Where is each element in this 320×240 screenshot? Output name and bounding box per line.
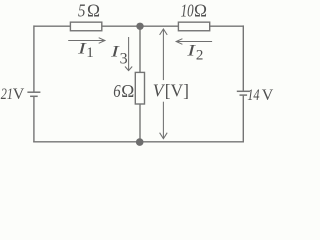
svg-text:6: 6 xyxy=(113,81,120,101)
svg-text:I: I xyxy=(110,44,120,61)
wire middle branch upper xyxy=(139,26,141,72)
svg-text:I: I xyxy=(186,43,196,60)
voltage arrow V bottom head xyxy=(160,133,168,139)
current arrow I1 head xyxy=(99,38,105,44)
svg-text:3: 3 xyxy=(120,50,128,67)
battery B2 short plate (14V) xyxy=(240,94,248,96)
battery B2 long plate (14V) xyxy=(237,90,250,92)
current arrow I1 shaft xyxy=(68,40,104,42)
voltage arrow V upper shaft xyxy=(162,29,164,80)
svg-text:V: V xyxy=(262,87,274,104)
svg-text:Ω: Ω xyxy=(121,81,134,101)
wire top-left segment xyxy=(34,25,71,27)
svg-text:V: V xyxy=(13,86,25,103)
junction node top xyxy=(136,23,143,30)
battery B1 long plate (21V) xyxy=(27,91,40,93)
svg-text:1: 1 xyxy=(86,45,94,61)
wire right side lower xyxy=(242,96,244,143)
resistor R2 box (10 ohm) xyxy=(178,22,209,31)
resistor R1 box (5 ohm) xyxy=(70,22,101,31)
svg-text:Ω: Ω xyxy=(194,1,207,21)
current arrow I2 head xyxy=(176,39,182,45)
wire left side upper xyxy=(33,25,35,91)
svg-text:[V]: [V] xyxy=(165,81,189,101)
svg-text:5: 5 xyxy=(78,1,85,21)
battery B1 short plate (21V) xyxy=(30,95,38,97)
voltage arrow V top head xyxy=(160,29,168,35)
junction node bottom xyxy=(136,138,144,146)
current arrow I3 head xyxy=(125,67,132,71)
svg-text:2: 2 xyxy=(196,48,204,64)
wire right side upper xyxy=(242,25,244,90)
voltage arrow V lower shaft xyxy=(162,102,164,139)
wire top-right segment xyxy=(210,25,244,27)
svg-text:21: 21 xyxy=(1,86,13,103)
wire bottom xyxy=(33,141,244,143)
wire middle branch lower xyxy=(139,104,141,142)
svg-text:10: 10 xyxy=(181,1,194,21)
current arrow I2 shaft xyxy=(176,41,212,43)
svg-text:I: I xyxy=(77,40,87,57)
resistor R3 box (6 ohm) xyxy=(135,72,144,104)
wire top-middle segment xyxy=(102,25,179,27)
svg-text:14: 14 xyxy=(247,87,259,104)
current arrow I3 shaft xyxy=(128,37,130,70)
svg-text:Ω: Ω xyxy=(87,1,100,21)
wire left side lower xyxy=(33,97,35,143)
